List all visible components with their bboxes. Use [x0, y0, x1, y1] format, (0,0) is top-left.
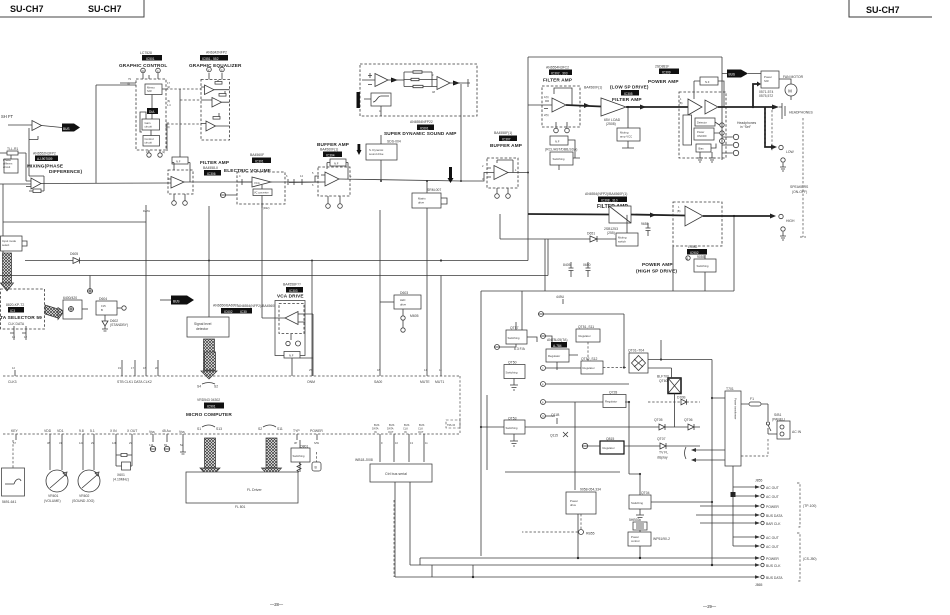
svg-text:QT05: QT05 [654, 418, 663, 422]
phase difference circuit block [10, 155, 12, 159]
pin circle B high [686, 256, 690, 260]
svg-text:9058-054,334: 9058-054,334 [580, 488, 601, 492]
svg-text:amp VCC: amp VCC [620, 135, 632, 139]
svg-text:9055: 9055 [697, 255, 705, 259]
svg-text:IC3: IC3 [10, 309, 15, 313]
dashed wire speakers 1 [765, 110, 772, 152]
pin circle q815 [582, 443, 587, 448]
switching block QT04 [629, 495, 651, 509]
eq resistor stubs [218, 80, 225, 117]
wire N.F power connections [694, 81, 724, 107]
svg-text:IC901: IC901 [207, 405, 216, 409]
speaker pin circle 2 [733, 142, 738, 147]
svg-text:HEADPHONES: HEADPHONES [789, 111, 813, 115]
wire psu mid rail [481, 426, 700, 428]
svg-text:Regulator: Regulator [548, 354, 560, 358]
gain circuit block [142, 119, 160, 130]
svg-text:6.3 F/A: 6.3 F/A [514, 347, 526, 351]
wire bus filter to volume [190, 181, 252, 183]
svg-text:POWER: POWER [766, 557, 779, 561]
wire q728 out [625, 402, 640, 474]
ctrl bus serial block [370, 464, 432, 482]
svg-text:6400/420: 6400/420 [63, 296, 77, 300]
svg-text:AC OUT: AC OUT [766, 536, 779, 540]
wire psu feed right [544, 314, 661, 368]
wires power amp right pins [711, 122, 720, 148]
headphone jack [779, 103, 785, 119]
svg-text:Q115: Q115 [550, 434, 558, 438]
power on off block [694, 128, 714, 140]
op-amp filter IC306 [171, 177, 184, 189]
bus pin TYP [296, 434, 298, 440]
wire drop x380 [379, 210, 381, 376]
svg-text:RB55: RB55 [586, 532, 595, 536]
wire qt57 stubs [500, 322, 537, 347]
wire network to op-amp2 [432, 80, 437, 87]
heavy wire filter low out [566, 105, 601, 107]
connector AC IN [777, 421, 790, 439]
svg-text:Switching: Switching [631, 501, 643, 505]
svg-text:N.F: N.F [705, 80, 710, 84]
svg-text:BUS DATA: BUS DATA [766, 514, 783, 518]
svg-text:STB CLK1 DATA CLK2: STB CLK1 DATA CLK2 [117, 380, 152, 384]
svg-text:VDD: VDD [44, 429, 52, 433]
pin circle micro 1 [150, 446, 155, 451]
bus arrow vertical mid [449, 167, 452, 178]
driver box high with diagonal [609, 206, 631, 223]
diode D602 [102, 321, 108, 326]
power control block [628, 532, 651, 546]
vca inner dashed box [279, 304, 304, 334]
svg-text:QT07: QT07 [657, 437, 666, 441]
svg-text:B: B [687, 257, 689, 261]
svg-text:Signal level: Signal level [194, 322, 212, 326]
svg-text:2(5): 2(5) [544, 113, 549, 117]
vca left chip [238, 308, 252, 314]
svg-text:IC307: IC307 [502, 137, 511, 141]
wire soft clip stub [364, 99, 381, 116]
wire psu lower rail [505, 402, 620, 490]
bus bar vertical at SDS left [357, 92, 360, 108]
remote sensor block [2, 468, 25, 496]
svg-text:V​ss: V​ss [149, 430, 155, 434]
svg-text:BUS: BUS [173, 300, 180, 304]
ribbon cable micro upper [205, 352, 216, 370]
VCA triangle [252, 177, 271, 187]
bus arrow chip top-left [62, 124, 80, 132]
pin circles buffer2 bottom [495, 194, 500, 199]
svg-text:1.4: 1.4 [167, 103, 171, 107]
memory S/R block [145, 84, 162, 95]
ground QT50 [510, 379, 518, 391]
svg-text:S2: S2 [214, 385, 218, 389]
svg-text:DATA: DATA [372, 427, 379, 431]
heavy wire high output [703, 215, 770, 217]
resistor N.F buffer [330, 159, 346, 166]
wire shift input [8, 124, 32, 126]
resistor N.F power top [700, 77, 718, 85]
power amp high dashed box [673, 202, 722, 246]
vca outer box [275, 301, 305, 356]
detector block [695, 118, 715, 126]
svg-text:QT60: QT60 [659, 379, 668, 383]
svg-text:D/A: D/A [149, 110, 155, 114]
pin circles psu column [541, 366, 546, 371]
wire motor [779, 79, 791, 100]
wires buffer amp [289, 163, 461, 183]
buffer amp dashed box [318, 167, 350, 196]
svg-text:POWER AMP: POWER AMP [642, 262, 673, 267]
svg-text:L4982: L4982 [688, 245, 698, 249]
svg-text:SA00: SA00 [374, 380, 382, 384]
wire bottom stub ticks [420, 558, 473, 577]
svg-text:AC IN: AC IN [792, 430, 802, 434]
svg-text:LC7528: LC7528 [140, 51, 152, 55]
regulator block QT51 [576, 329, 600, 342]
svg-text:BUFFER AMP: BUFFER AMP [490, 143, 522, 148]
svg-text:DATA: DATA [387, 427, 394, 431]
diode D70B [681, 399, 687, 405]
data selector dashed box [1, 289, 45, 329]
power drive block [566, 492, 596, 514]
svg-text:IC301: IC301 [255, 159, 264, 163]
wires electric volume [237, 182, 318, 208]
svg-text:KEY: KEY [11, 429, 19, 433]
wire muting amp [622, 107, 634, 148]
svg-text:switch: switch [618, 240, 626, 244]
power amp low dashed box [679, 92, 726, 158]
ground d602 [102, 326, 108, 331]
switching block QT57 [506, 330, 527, 344]
wire SDS drive vertical [380, 135, 382, 181]
heavy wire high driver out [631, 215, 685, 216]
svg-text:IC305: IC305 [624, 92, 633, 96]
svg-text:Q815: Q815 [606, 437, 614, 441]
svg-text:QT06: QT06 [684, 418, 693, 422]
svg-text:Switching: Switching [553, 157, 565, 161]
svg-text:Regulator: Regulator [579, 334, 591, 338]
svg-text:QT04: QT04 [641, 491, 650, 495]
fuse F1 [741, 403, 768, 405]
rotary VR602 [78, 470, 100, 492]
speaker pin circle 3 [733, 150, 738, 155]
junction bottom rails [639, 557, 641, 559]
svg-text:POWER AMP: POWER AMP [648, 79, 679, 84]
selector chip [8, 307, 24, 313]
svg-text:IC601: IC601 [420, 126, 429, 130]
svg-text:AN6650/BA6993: AN6650/BA6993 [213, 304, 238, 308]
power amp low triangle 2 [705, 100, 718, 114]
ribbon cable detector down [204, 339, 215, 371]
wire filter low pins [556, 122, 567, 128]
ground HIGH [781, 227, 785, 231]
wire bottom rail power [420, 557, 733, 559]
svg-text:124: 124 [79, 441, 84, 445]
svg-text:LED: LED [400, 298, 405, 302]
svg-text:Switching: Switching [508, 336, 520, 340]
svg-text:(VOLUME): (VOLUME) [44, 499, 61, 503]
arrow fl display 1 [696, 449, 726, 451]
svg-text:display: display [657, 456, 668, 460]
wire rail d605 [25, 260, 528, 262]
svg-text:FILTER AMP: FILTER AMP [612, 97, 642, 103]
svg-text:POWER: POWER [310, 429, 323, 433]
regulator block Q815 [600, 441, 624, 454]
svg-text:BA4558-II: BA4558-II [203, 166, 218, 170]
svg-text:AC OUT: AC OUT [766, 495, 779, 499]
wire switching low stubs [559, 140, 580, 170]
power amp low triangle 1 [688, 99, 702, 115]
wires vca [262, 314, 313, 376]
micro bus lower dashed [3, 433, 460, 435]
svg-text:8820-KP-T2: 8820-KP-T2 [6, 303, 24, 307]
wire drop x312 [311, 261, 313, 377]
pin circles buffer bottom [326, 204, 331, 209]
svg-text:(2): (2) [167, 85, 170, 89]
bus pin ticks STB CLK1 DATA CLK2 [122, 360, 158, 376]
svg-text:WP51/90-2: WP51/90-2 [653, 537, 670, 541]
svg-text:S/R: S/R [147, 89, 152, 93]
svg-text:(2508): (2508) [606, 122, 616, 126]
svg-text:F1: F1 [750, 397, 754, 401]
wire top rail y222 [3, 221, 146, 223]
pin circle led 1 [401, 316, 405, 320]
wire vca down to bus [291, 358, 293, 376]
svg-text:DATA: DATA [143, 209, 150, 213]
svg-text:9655: 9655 [641, 222, 649, 226]
svg-text:Q11B: Q11B [551, 413, 560, 417]
muting switch block [616, 233, 638, 246]
heavy wire high bus left [528, 213, 609, 216]
IC501 chip [142, 55, 162, 61]
svg-text:D604: D604 [99, 297, 107, 301]
switching block low [550, 152, 573, 165]
svg-text:5HB92: 5HB92 [629, 518, 639, 522]
svg-text:QT01–T04: QT01–T04 [628, 349, 644, 353]
wire control box bottom pins [149, 150, 160, 152]
junction detector rail [208, 260, 210, 262]
wire left edge vertical [2, 184, 4, 256]
wire qt04 to power row [651, 398, 712, 565]
pin circles below control box [147, 153, 151, 157]
wire pins to control box [143, 73, 158, 79]
wires inside graphic control [120, 83, 168, 136]
svg-text:(STANDBY): (STANDBY) [110, 323, 128, 327]
op-amp SDS 1 [375, 74, 388, 87]
eq internal wires [201, 73, 230, 126]
svg-text:IN: IN [374, 430, 377, 434]
svg-text:AJ-907009: AJ-907009 [37, 157, 53, 161]
svg-text:drive: drive [400, 303, 407, 307]
connector row BUS DATA 1 [696, 514, 755, 516]
connector row BUS DATA 2 [395, 576, 755, 578]
svg-text:S/W: S/W [314, 441, 319, 445]
pin circle 4 [156, 68, 161, 73]
svg-text:QT50: QT50 [508, 361, 517, 365]
wire drop x146 [145, 205, 147, 376]
matrix drive block [412, 193, 441, 208]
wire mixing feedback [26, 176, 44, 191]
wire buffer bottom pins [328, 196, 340, 203]
wire buffer2 pins [497, 188, 508, 193]
black arrow SDS mid [391, 78, 398, 83]
switching block Q801 [291, 448, 310, 462]
svg-text:MUTE: MUTE [420, 380, 430, 384]
wire qt60 connections [648, 360, 725, 428]
IC551 552 chip [200, 55, 228, 61]
svg-text:D651: D651 [587, 232, 595, 236]
svg-text:LOW: LOW [786, 150, 795, 154]
svg-text:TYP: TYP [293, 429, 300, 433]
wire drop x427 [426, 208, 428, 376]
wire qt04 chain [639, 474, 641, 558]
svg-text:(R22): (R22) [263, 206, 270, 210]
svg-text:S1: S1 [197, 427, 201, 431]
pin circle led 2 [401, 328, 405, 332]
bracket CS-J50 [797, 533, 800, 581]
svg-text:(B): (B) [677, 209, 681, 213]
svg-text:AN6554N3FC2: AN6554N3FC2 [546, 66, 569, 70]
svg-text:S13: S13 [216, 427, 222, 431]
svg-text:SDS-004: SDS-004 [387, 140, 401, 144]
wire matrix top to bus [426, 181, 428, 193]
ground vss [180, 448, 186, 454]
pin circles power amp right [720, 123, 724, 127]
block D604 [96, 301, 117, 315]
heavy wire power sr drop [753, 84, 757, 107]
dashed wire transformer return [741, 439, 768, 456]
svg-text:Bias: Bias [699, 147, 705, 151]
wire filter amp feedback [168, 163, 190, 184]
svg-text:BUS: BUS [729, 73, 736, 77]
brace fl display [685, 447, 687, 459]
wire mid rail verticals [545, 239, 673, 291]
svg-text:SPEAKERS: SPEAKERS [790, 185, 809, 189]
micro bus upper dashed [3, 376, 460, 434]
svg-text:S4: S4 [197, 385, 201, 389]
svg-text:M: M [788, 89, 792, 94]
svg-text:SH FT: SH FT [1, 114, 14, 119]
pin circle d604 out [122, 306, 126, 310]
svg-text:Switching: Switching [293, 454, 305, 458]
svg-text:BAR CLK: BAR CLK [766, 522, 781, 526]
svg-text:OUT: OUT [418, 430, 424, 434]
connector row POWER 1 [700, 505, 755, 507]
black arrow down to SDS drive [358, 144, 361, 150]
resistor network SDS [404, 71, 432, 88]
wire d604 bottom [104, 315, 106, 321]
junction SDS bus [460, 180, 462, 182]
wire switching high stubs [704, 255, 706, 291]
wire drop x441 [440, 276, 442, 377]
svg-text:CLK3: CLK3 [8, 380, 17, 384]
speaker pin circle 1 [733, 134, 738, 139]
AN6650 chip [221, 308, 241, 314]
wire led stub left [380, 301, 394, 303]
pin circle an78 [541, 334, 546, 339]
pin circle HIGH [779, 214, 783, 218]
svg-text:449U: 449U [556, 295, 565, 299]
svg-text:QT51 ,S11: QT51 ,S11 [578, 325, 594, 329]
op-amp mixing [31, 178, 41, 189]
svg-text:MIXING(PHASE: MIXING(PHASE [27, 164, 63, 169]
title block right [849, 0, 932, 17]
svg-text:(B): (B) [679, 101, 683, 105]
svg-text:circuit: circuit [145, 125, 153, 129]
svg-text:(RCL/AST/DBB,SDA): (RCL/AST/DBB,SDA) [545, 148, 577, 152]
svg-text:control: control [631, 539, 640, 543]
connector row AC OUT 3 [733, 536, 755, 538]
wire key drop [12, 440, 14, 468]
svg-text:circuit: circuit [3, 165, 11, 169]
svg-text:VR601: VR601 [48, 494, 58, 498]
svg-text:(3): (3) [127, 82, 130, 86]
heavy wire power amp out to headphones [718, 106, 772, 108]
svg-text:ONM: ONM [307, 380, 315, 384]
svg-text:circuit: circuit [145, 141, 153, 145]
svg-text:(6): (6) [167, 99, 170, 103]
svg-text:AN6554NFP22: AN6554NFP22 [410, 120, 433, 124]
svg-text:9.8: 9.8 [79, 429, 84, 433]
crystal 5HB92 [633, 522, 647, 530]
pin circle 40 [141, 68, 146, 73]
svg-text:AC OUT: AC OUT [766, 486, 779, 490]
svg-text:WB18-J008: WB18-J008 [355, 458, 373, 462]
svg-text:45 Au: 45 Au [162, 429, 171, 433]
svg-text:Q728: Q728 [609, 391, 617, 395]
svg-text:Switching: Switching [506, 371, 518, 375]
VC converter block [253, 189, 272, 196]
svg-text:MUT1: MUT1 [435, 380, 444, 384]
svg-text:detector: detector [196, 327, 209, 331]
svg-text:VC converter: VC converter [254, 192, 269, 195]
svg-text:QT57: QT57 [510, 326, 519, 330]
svg-text:BA4558F??: BA4558F?? [283, 283, 301, 287]
wire rail mid [0, 239, 548, 276]
svg-text:D605: D605 [70, 252, 78, 256]
svg-text:AN6554(NFP2)/BA4560F(1): AN6554(NFP2)/BA4560F(1) [585, 192, 627, 196]
IC309 chip [659, 69, 679, 75]
svg-text:J865: J865 [755, 583, 762, 587]
ground QT53 [510, 434, 518, 446]
wire filter bottom pins [174, 194, 185, 201]
svg-text:B: B [101, 308, 103, 312]
wire 449u tick [562, 299, 564, 304]
wire mid rail horizontal [481, 290, 734, 292]
junction x312 rail [311, 260, 313, 262]
IC301 chip [252, 158, 271, 164]
svg-text:Regulator: Regulator [605, 400, 617, 404]
wires buffer 2 [461, 160, 528, 181]
driver triangle open low [601, 98, 626, 116]
junction transformer bottom [731, 492, 736, 497]
svg-text:BA4558F(1): BA4558F(1) [494, 131, 512, 135]
svg-text:BUS: BUS [63, 127, 70, 131]
svg-text:Regulator: Regulator [603, 446, 615, 450]
svg-text:SUPER DYNAMIC SOUND AMP: SUPER DYNAMIC SOUND AMP [384, 131, 457, 136]
resistor N.F filter amp [172, 157, 188, 164]
arrow high out [770, 214, 776, 219]
svg-text:Switching: Switching [506, 426, 518, 430]
svg-text:FAN MOTOR: FAN MOTOR [783, 75, 804, 79]
op-amp SDS 2 [437, 77, 450, 90]
IC305 chip [621, 90, 639, 96]
IC302 303 chip [549, 70, 572, 76]
svg-text:BLF700: BLF700 [657, 375, 669, 379]
svg-text:X601: X601 [117, 473, 125, 477]
svg-text:SU-CH7: SU-CH7 [866, 5, 900, 15]
IC306 chip [204, 170, 221, 176]
